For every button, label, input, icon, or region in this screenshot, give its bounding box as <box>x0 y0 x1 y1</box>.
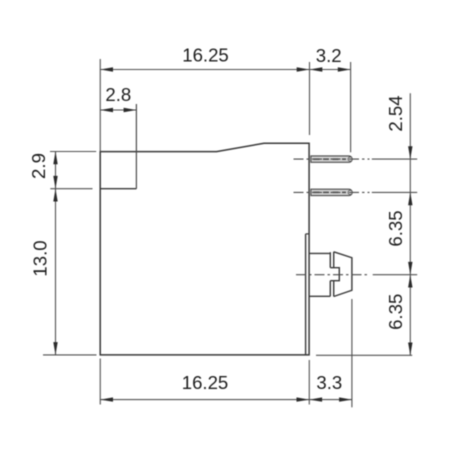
2.9 top arrow <box>53 151 57 164</box>
svg-text:16.25: 16.25 <box>182 372 229 393</box>
bottom ext x=309.3 <box>308 360 310 405</box>
right 6.35 lower up arrow <box>408 275 412 288</box>
svg-text:3.3: 3.3 <box>316 372 342 393</box>
ext y=151.5 <box>50 151 96 153</box>
ext y=188.7 <box>50 188 92 190</box>
top 3.2 right arrow <box>338 67 351 71</box>
mounting lug <box>309 252 352 297</box>
13.0 top arrow <box>53 189 57 202</box>
ext y=192.3 right <box>372 191 417 193</box>
svg-text:3.2: 3.2 <box>316 45 342 66</box>
bottom ext x=100.25 <box>99 359 101 405</box>
ext y=354.9 <box>43 354 97 356</box>
bottom dim line 16.25 / 3.3 <box>100 399 352 401</box>
2.8 dim line <box>100 109 136 111</box>
svg-text:2.8: 2.8 <box>105 84 131 105</box>
svg-text:2.54: 2.54 <box>385 95 406 131</box>
top 3.2 left arrow <box>310 67 323 71</box>
rib top tick <box>306 233 310 235</box>
pin 1 <box>311 156 352 162</box>
svg-text:6.35: 6.35 <box>385 294 406 330</box>
ext line x=309.5 top <box>309 62 311 135</box>
left dim line 2.9 / 13.0 <box>55 151 57 355</box>
top dim line 16.25 / 3.2 <box>100 69 350 71</box>
ext y=159.2 right <box>372 158 417 160</box>
right 6.35 upper down arrow <box>408 262 412 275</box>
ext y=355.3 right <box>316 354 412 356</box>
pin 2 centerline <box>294 191 370 193</box>
svg-text:6.35: 6.35 <box>385 210 406 246</box>
arrowheads <box>53 67 412 402</box>
bottom 3.3 left arrow <box>309 397 322 401</box>
2.9 bottom arrow <box>53 176 57 189</box>
notch bottom edge <box>100 188 136 190</box>
2.8 left arrow <box>100 108 113 112</box>
bottom 16.25 right arrow <box>297 397 310 401</box>
bottom 3.3 right arrow <box>339 397 352 401</box>
pin 1 centerline <box>294 158 370 160</box>
right 2.54 top arrow <box>408 146 412 159</box>
rib inner line <box>305 234 307 355</box>
top 16.25 left arrow <box>100 67 113 71</box>
left vertical extension (top dims + body left edge above) <box>99 59 101 152</box>
svg-text:2.9: 2.9 <box>28 153 49 179</box>
pin 2 <box>311 189 352 195</box>
dimension texts <box>28 45 406 394</box>
lug centerline <box>296 274 370 276</box>
2.8 right arrow <box>124 108 137 112</box>
right 6.35 bottom arrow <box>408 343 412 356</box>
right 2.54 bottom arrow <box>408 192 412 205</box>
13.0 bottom arrow <box>53 342 57 355</box>
notch vertical edge <box>135 104 137 189</box>
body outline <box>100 143 309 355</box>
dimension and extension lines <box>43 59 417 407</box>
ext y=274.8 right <box>373 274 418 276</box>
bottom 16.25 left arrow <box>100 397 113 401</box>
top 16.25 right arrow <box>297 67 310 71</box>
right dim line <box>409 93 411 355</box>
bottom ext x=351.9 <box>351 299 353 407</box>
ext line x=350.6 top <box>350 62 352 152</box>
svg-text:16.25: 16.25 <box>182 45 229 66</box>
svg-text:13.0: 13.0 <box>30 240 51 276</box>
